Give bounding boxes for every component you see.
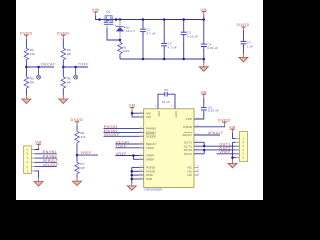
resistor R6 NP — [61, 67, 71, 89]
resistor R3 NP — [61, 48, 71, 61]
wire DECAY to IC — [115, 143, 143, 145]
NC pin stubs — [194, 167, 199, 175]
svg-text:NP: NP — [67, 52, 71, 56]
svg-text:nSLEEP: nSLEEP — [104, 133, 120, 137]
wire J1 pin6 to VM — [35, 148, 39, 150]
junction Q1 drain — [115, 18, 118, 21]
wire TOFF net — [63, 66, 88, 68]
svg-text:VCP: VCP — [186, 117, 192, 121]
junction J2 gnd — [231, 156, 234, 159]
svg-text:NC: NC — [188, 173, 193, 177]
svg-text:NP: NP — [67, 80, 71, 84]
svg-text:16.2 V: 16.2 V — [126, 29, 135, 33]
wire J1 nFAULT — [35, 161, 57, 163]
junction C4 top — [203, 18, 206, 21]
wire DVDD pin to flag — [194, 126, 224, 127]
IC pin names top CPL CPH — [157, 111, 178, 118]
wire nFAULT — [194, 134, 220, 136]
wire VREF net — [77, 154, 98, 156]
resistor R2 10k — [24, 48, 35, 61]
wire R7 to ground — [76, 175, 78, 178]
resistor R5 NP — [24, 67, 34, 89]
svg-text:0.01 uF: 0.01 uF — [187, 34, 198, 38]
svg-text:TOFF: TOFF — [116, 144, 127, 148]
via on DECAY wire — [38, 67, 40, 75]
left black bar — [0, 0, 16, 200]
junction OUT1 — [203, 145, 206, 148]
svg-text:4.7 uF: 4.7 uF — [168, 46, 177, 50]
wire VCP to C6 — [194, 111, 204, 119]
wire J2 gnd bar — [232, 142, 234, 157]
ground under R7 — [76, 178, 78, 182]
ground under R5 — [25, 95, 27, 99]
wire OUT2 pins join — [194, 150, 204, 154]
wire J2 pin6 — [233, 157, 236, 159]
svg-text:1 uF: 1 uF — [247, 45, 253, 49]
IC pin stubs left — [139, 113, 144, 179]
svg-text:C5: C5 — [164, 88, 168, 92]
wire VM pins join — [131, 111, 133, 113]
IC pin numbers right — [196, 117, 199, 175]
ground under J2 — [232, 158, 234, 160]
wire R2 to DECAY node — [25, 61, 27, 68]
junction C3 bottom — [163, 58, 166, 61]
wire bottom rail — [120, 58, 204, 60]
svg-text:10k: 10k — [30, 52, 36, 56]
svg-text:VREF: VREF — [220, 150, 231, 154]
wire nSLEEP to IC — [104, 135, 144, 137]
capacitor C4 0.01 uF — [201, 20, 218, 60]
wire Q1 gate down — [106, 24, 108, 28]
J2 pin stubs — [236, 138, 240, 157]
resistor R4 47k — [75, 131, 86, 144]
resistor R7 NP — [75, 155, 85, 174]
wire TOFF to IC — [115, 147, 143, 149]
wire VIN to rail — [96, 16, 99, 20]
svg-text:TOFF: TOFF — [146, 146, 154, 150]
capacitor C2 0.01 uF — [181, 20, 198, 60]
IC U1 DRV8256EP body — [144, 109, 194, 192]
junction C1 top — [142, 18, 145, 21]
wire J1 nSLEEP — [35, 166, 57, 168]
wire R6 to ground — [62, 89, 64, 95]
junction C4 bottom — [203, 58, 206, 61]
ground under R6 — [62, 95, 64, 99]
svg-text:0.22 uF: 0.22 uF — [208, 109, 219, 113]
svg-text:FAULT: FAULT — [183, 133, 193, 137]
svg-text:nSLEEP: nSLEEP — [43, 163, 59, 167]
svg-text:DVDD: DVDD — [183, 125, 193, 129]
svg-text:VREF: VREF — [81, 151, 92, 155]
capacitor C6 0.22uF — [201, 98, 219, 113]
svg-text:CPH: CPH — [174, 111, 178, 118]
svg-text:Q1: Q1 — [106, 10, 110, 14]
junction PAD — [131, 178, 134, 181]
junction VM pin1 — [131, 112, 134, 115]
junction OUT2 — [203, 149, 206, 152]
wire R3 to TOFF node — [62, 61, 64, 68]
right black bar — [263, 0, 280, 200]
wire DECAY net — [26, 66, 54, 68]
svg-text:VREF: VREF — [116, 152, 127, 156]
wire J1 EN/IN1 — [35, 153, 57, 155]
wire J2 pin2 to gnd bar — [233, 141, 236, 143]
svg-text:CPL: CPL — [157, 111, 161, 117]
wire VREF stub (J2 side) — [217, 153, 240, 155]
svg-text:4.7 uF: 4.7 uF — [146, 31, 155, 35]
junction VIN/Q1 source — [98, 18, 101, 21]
junction VREF pins — [132, 154, 135, 157]
junction C1 bottom — [142, 58, 145, 61]
white canvas — [16, 0, 263, 200]
resistor R1 100k — [118, 40, 130, 54]
diode D1 zener 16.2V — [115, 20, 135, 41]
svg-text:PAD: PAD — [146, 177, 153, 181]
ground under IC — [131, 182, 133, 186]
wire PGND/GND/PAD join — [132, 167, 144, 183]
svg-text:VREF: VREF — [146, 157, 154, 161]
svg-text:nFAULT: nFAULT — [208, 131, 224, 135]
capacitor C3 4.7 uF — [161, 20, 176, 60]
junction C2 top — [182, 18, 185, 21]
junction via stub TOFF — [74, 66, 77, 69]
wire J1 PH/IN2 — [35, 157, 57, 159]
svg-text:TOFF: TOFF — [78, 63, 89, 67]
wire R4 to VREF node — [76, 144, 78, 156]
svg-text:OUT2: OUT2 — [184, 152, 193, 156]
wire OUT1 net — [194, 145, 240, 147]
wire R5 to ground — [25, 89, 27, 95]
wire J1 pin1 to ground — [35, 171, 39, 178]
junction C3 top — [163, 18, 166, 21]
wire OUT2 net — [194, 149, 240, 151]
IC pin names left — [146, 111, 156, 181]
svg-text:DECAY: DECAY — [41, 63, 55, 67]
svg-text:NP: NP — [80, 166, 84, 170]
ground under J1 — [38, 178, 40, 182]
capacitor C1 4.7 uF — [140, 20, 155, 60]
wire EN/IN1 to IC — [104, 131, 144, 133]
J1 pin stubs — [31, 150, 34, 171]
IC pin names right — [183, 117, 193, 177]
junction gate/D1/R1 node — [119, 39, 122, 42]
svg-text:100k: 100k — [123, 49, 130, 53]
junction VREF node — [76, 154, 79, 157]
svg-text:22 nF: 22 nF — [162, 100, 170, 104]
capacitor C7 1uF — [241, 41, 254, 54]
wire VREF to IC pins — [115, 155, 143, 157]
svg-text:NP: NP — [30, 80, 34, 84]
junction GND — [131, 174, 134, 177]
capacitor C5 22nF charge pump — [158, 88, 175, 109]
junction C2 bottom — [182, 58, 185, 61]
junction via stub DECAY — [37, 66, 40, 69]
connector J2 motor/power header — [240, 132, 248, 162]
transistor Q1 — [104, 10, 114, 25]
wire PH/IN2 to IC — [104, 128, 144, 130]
svg-text:47k: 47k — [80, 135, 86, 139]
wire top rail VM — [98, 19, 204, 21]
svg-text:DRV8256EP: DRV8256EP — [145, 188, 163, 192]
wire J2 pin1 to VM — [233, 133, 236, 139]
ground under cap bank — [203, 59, 205, 63]
wire OUT1 pins join — [194, 142, 204, 146]
svg-text:VM: VM — [146, 115, 151, 119]
via on TOFF wire — [75, 67, 77, 75]
svg-text:0.01 uF: 0.01 uF — [207, 46, 218, 50]
wire R1 to bottom rail — [119, 55, 121, 60]
junction TOFF node — [62, 66, 65, 69]
ground under C7 — [243, 54, 245, 58]
junction D1 top — [119, 18, 122, 21]
junction PGND2 — [131, 170, 134, 173]
IC pin numbers left — [139, 112, 142, 180]
svg-text:SLEEP: SLEEP — [146, 134, 156, 138]
connector J1 control header — [24, 146, 32, 174]
junction DECAY node — [25, 66, 28, 69]
